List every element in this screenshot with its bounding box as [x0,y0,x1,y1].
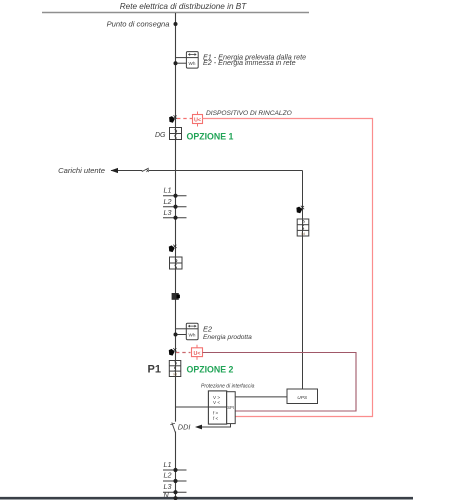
wire: taps to production meter E2 [176,328,187,330]
svg-text:Carichi utente: Carichi utente [58,166,105,175]
svg-text:Wh: Wh [189,61,196,66]
svg-text:DDI: DDI [178,422,191,431]
svg-text:DISPOSITIVO DI RINCALZO: DISPOSITIVO DI RINCALZO [206,110,292,117]
trip flag on main line at opzione 2 tap [169,348,177,356]
wire: carichi utente horizontal line (right of switch) [149,170,303,172]
svg-text:Punto di consegna: Punto di consegna [107,20,170,29]
switch blade on carichi line [142,168,149,172]
trip flag (automatic opening) on main line at rincalzo tap [169,115,177,123]
svg-text:L3: L3 [164,208,172,217]
svg-text:OPZIONE 2: OPZIONE 2 [187,365,234,375]
switch DDI (dispositivo di interfaccia) [172,423,176,433]
wire: main line to protezione di interfaccia [176,406,209,408]
svg-text:Id: Id [301,231,304,236]
svg-text:Id: Id [173,372,176,377]
wire: right branch vertical (to UPS) [302,171,304,390]
svg-text:E2: E2 [203,325,212,334]
wire: SPI trip command to DDI (arrow) [197,424,231,427]
svg-text:Protezione di interfaccia: Protezione di interfaccia [201,384,255,390]
breaker (3-cell with Id) on right branch [297,219,309,236]
wire: SPI to UPS [235,396,287,398]
relay box V>/V< f>/f< (protezione di interfaccia) [208,391,226,424]
svg-text:Wh: Wh [189,333,196,338]
svg-text:V <: V < [213,400,220,405]
svg-text:DG: DG [155,132,166,139]
svg-text:U<: U< [193,351,200,357]
wire: red dashed link to relay U< (opzione 2) [176,352,191,354]
svg-text:E2 - Energia immessa in rete: E2 - Energia immessa in rete [203,58,296,67]
relay U< (opzione 2) [192,345,203,360]
svg-text:UPS: UPS [297,395,308,401]
breaker P1 (3-cell with Id) [169,361,181,377]
svg-text:Energia prodotta: Energia prodotta [203,334,252,341]
svg-text:U<: U< [194,117,201,123]
svg-text:f <: f < [213,416,219,421]
arrow to loads [111,168,119,173]
meter M1 (Wh, bidirectional E1/E2) [186,52,198,69]
svg-text:P1: P1 [148,364,161,376]
svg-text:Rete elettrica di distribuzion: Rete elettrica di distribuzione in BT [120,2,248,11]
svg-text:SPI: SPI [227,405,234,410]
svg-text:L2: L2 [164,470,172,479]
meter M2 (Wh, energia prodotta) [186,323,198,340]
svg-text:OPZIONE 1: OPZIONE 1 [187,132,234,142]
trip flag on main line above breaker [169,245,177,253]
net: Rete elettrica di distribuzione in BT (top bus) [42,12,309,14]
breaker (2-cell) on main line [170,257,183,269]
trip flag on right branch [296,206,304,214]
svg-text:L1: L1 [164,185,172,194]
wire: taps to energy meter E1/E2 [176,57,187,59]
wire: red control line from U< to SPI (outer loop) [203,119,373,417]
svg-text:L2: L2 [164,197,172,206]
SPI box [227,392,236,424]
UPS box [287,389,318,404]
svg-text:f >: f > [213,411,219,416]
svg-text:L1: L1 [164,460,172,469]
wire: main vertical feeder (upper part, bus to DDI) [175,13,177,422]
relay U< (dispositivo di rincalzo) [193,112,203,127]
current transformer / sensor block on main line [172,293,179,300]
wire: dark red control line from U< to SPI (inner loop) [203,353,357,412]
wire: main vertical feeder (lower part, DDI to N) [175,432,177,499]
wire: red dashed link to dispositivo di rincalzo [177,118,193,120]
wire: carichi utente horizontal line (left of switch) [111,170,142,172]
